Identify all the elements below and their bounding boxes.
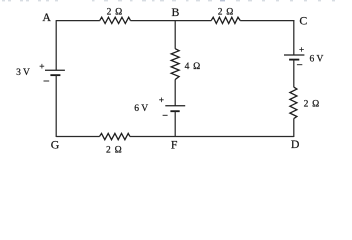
wire R2 to top-right corner C	[240, 20, 294, 22]
battery V1 3V long plate	[45, 69, 65, 71]
svg-text:3 V: 3 V	[16, 68, 30, 78]
wire top-left corner A to R1	[56, 20, 100, 22]
battery V2 6V long plate	[165, 105, 185, 107]
svg-text:C: C	[299, 14, 307, 28]
svg-text:2 Ω: 2 Ω	[107, 8, 123, 18]
wire R5 down to bottom-right corner D	[293, 119, 295, 138]
resistor R4 2ohm between G and F	[100, 133, 130, 139]
resistor R5 2ohm right branch	[290, 87, 297, 119]
wire left side A down to battery V1	[55, 20, 57, 70]
resistor R1 2ohm between A and B	[100, 17, 131, 23]
battery V3 6V short plate	[289, 59, 299, 61]
wire node C down to battery V3	[293, 20, 295, 55]
battery V3 6V long plate	[284, 54, 304, 56]
wire node B down to R3	[174, 21, 176, 49]
svg-text:F: F	[171, 137, 178, 151]
svg-text:A: A	[42, 10, 51, 24]
svg-text:2 Ω: 2 Ω	[304, 100, 320, 110]
resistor R3 4ohm middle branch	[171, 49, 179, 80]
battery V2 plus sign	[159, 98, 164, 103]
svg-text:2 Ω: 2 Ω	[106, 146, 122, 156]
battery V2 minus sign	[163, 114, 168, 116]
wire R1 through node B to R2	[130, 20, 211, 22]
cropped text remnants along top edge	[2, 0, 335, 1]
wire R3 down to battery V2	[174, 79, 176, 105]
svg-text:D: D	[291, 137, 300, 151]
wire R4 through node F to corner D	[130, 135, 294, 137]
battery V3 plus sign	[299, 47, 304, 52]
svg-text:6 V: 6 V	[309, 55, 323, 65]
battery V1 plus sign	[40, 64, 45, 69]
svg-text:6 V: 6 V	[134, 104, 148, 114]
battery V1 3V short plate	[50, 74, 60, 76]
wire battery V1 down to bottom-left corner G	[55, 75, 57, 137]
wire battery V2 down to node F	[174, 111, 176, 137]
wire battery V3 down to R5	[293, 60, 295, 88]
battery V1 minus sign	[44, 80, 50, 82]
battery V2 6V short plate	[170, 110, 179, 112]
resistor R2 2ohm between B and C	[211, 17, 240, 23]
svg-text:4 Ω: 4 Ω	[185, 62, 201, 72]
svg-text:2 Ω: 2 Ω	[218, 8, 234, 18]
svg-text:B: B	[171, 5, 179, 19]
wire bottom G to R4	[56, 135, 99, 137]
battery V3 minus sign	[297, 64, 302, 66]
svg-text:G: G	[51, 138, 60, 152]
